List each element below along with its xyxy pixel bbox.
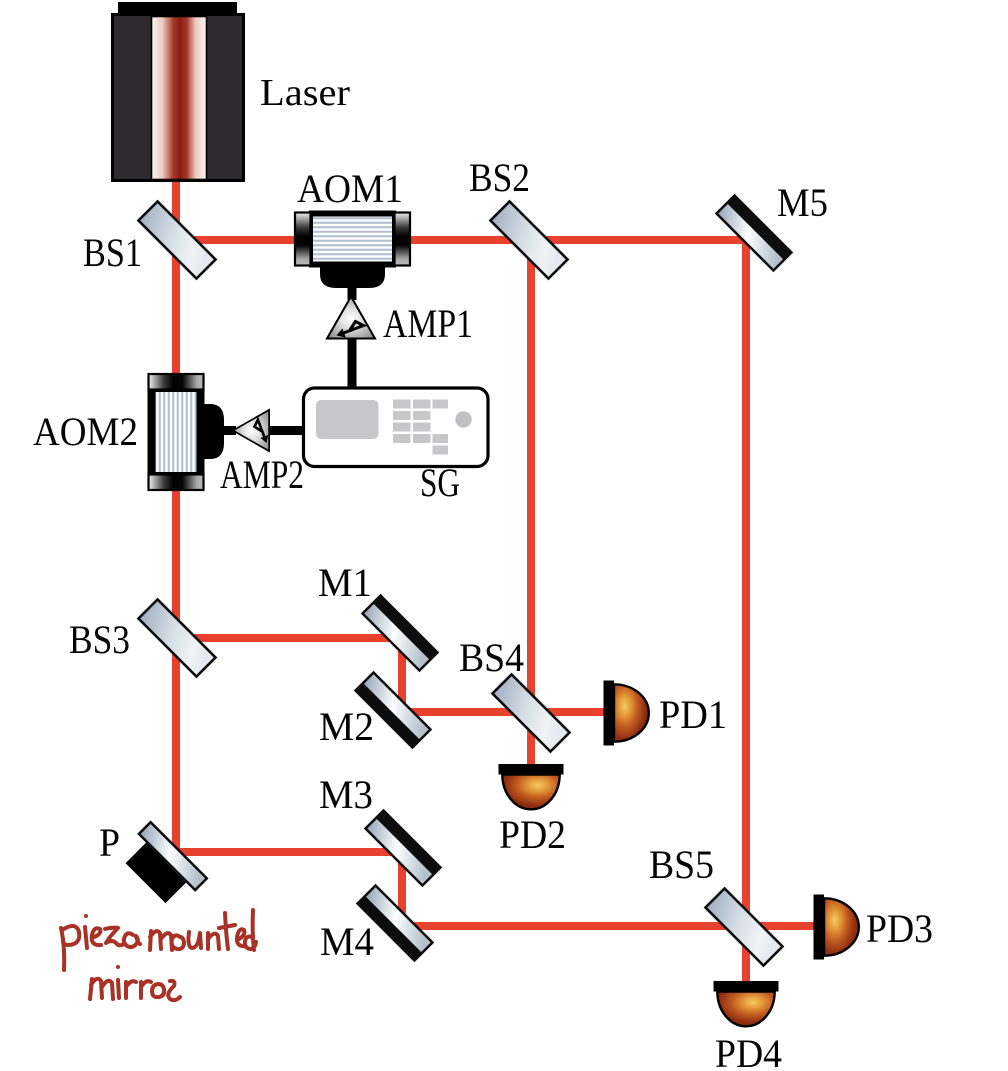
handwritten annotation: piezo mounted mirror bbox=[61, 910, 256, 1000]
svg-text:BS3: BS3 bbox=[69, 617, 130, 662]
beam splitter BS3 bbox=[138, 599, 215, 676]
svg-text:PD2: PD2 bbox=[499, 812, 566, 857]
signal generator SG bbox=[304, 388, 489, 467]
AOM2 bbox=[148, 374, 225, 490]
mirror M1 bbox=[361, 594, 439, 672]
svg-text:BS2: BS2 bbox=[469, 155, 530, 200]
wire: horizontal beam P to M3 bbox=[176, 848, 406, 856]
svg-text:AMP2: AMP2 bbox=[220, 452, 304, 497]
wire: vertical beam M5 down to BS5 bbox=[742, 240, 750, 931]
wire: horizontal beam M4 through BS5 to PD3 bbox=[402, 922, 815, 930]
svg-text:BS4: BS4 bbox=[459, 635, 524, 680]
svg-text:SG: SG bbox=[420, 460, 460, 505]
wire: main vertical beam from Laser through BS1, AOM2, BS3 to P bbox=[172, 100, 180, 856]
mirror M3 bbox=[364, 809, 442, 887]
cable: AMP1 to SG bbox=[348, 336, 357, 390]
beam splitter BS1 bbox=[138, 201, 215, 278]
AOM1 bbox=[295, 211, 410, 289]
mirror M5 bbox=[715, 194, 793, 272]
beam splitter BS2 bbox=[490, 201, 567, 278]
svg-text:M4: M4 bbox=[320, 919, 374, 964]
svg-text:PD3: PD3 bbox=[866, 906, 933, 951]
op-amp AMP2 bbox=[233, 410, 269, 451]
laser bbox=[113, 2, 244, 181]
svg-text:AOM2: AOM2 bbox=[33, 409, 138, 454]
svg-text:M2: M2 bbox=[319, 704, 374, 749]
wire: vertical beam BS5 down to PD4 bbox=[742, 927, 750, 983]
wire: vertical beam M3 to M4 bbox=[398, 852, 406, 928]
beam splitter BS4 bbox=[492, 674, 569, 751]
cable: AMP2 to SG bbox=[266, 426, 306, 435]
photodetector PD1 bbox=[604, 681, 649, 746]
beam splitter BS5 bbox=[705, 888, 782, 965]
wire: horizontal beam BS3 to M1 bbox=[176, 634, 406, 642]
op-amp AMP1 bbox=[327, 297, 375, 339]
photodetector PD3 bbox=[814, 895, 859, 960]
piezo mirror P bbox=[117, 820, 209, 912]
svg-text:P: P bbox=[99, 820, 120, 865]
svg-text:AOM1: AOM1 bbox=[297, 166, 403, 211]
svg-text:PD4: PD4 bbox=[715, 1031, 782, 1071]
wire: top horizontal beam BS1 to AOM1 to BS2 to M5 bbox=[172, 236, 751, 244]
wire: vertical beam BS2 down to BS4 bbox=[527, 240, 535, 718]
mirror M4 bbox=[356, 884, 434, 962]
cable: AOM1 to AMP1 bbox=[348, 282, 357, 300]
photodetector PD2 bbox=[499, 764, 564, 809]
photodetector PD4 bbox=[714, 981, 779, 1026]
svg-text:AMP1: AMP1 bbox=[383, 301, 473, 346]
svg-text:PD1: PD1 bbox=[659, 692, 727, 737]
svg-text:BS5: BS5 bbox=[649, 842, 714, 887]
svg-text:Laser: Laser bbox=[260, 72, 350, 114]
wire: horizontal beam M2 through BS4 to PD1 bbox=[402, 708, 605, 716]
svg-text:M3: M3 bbox=[319, 772, 373, 817]
svg-text:M1: M1 bbox=[318, 560, 372, 605]
wire: vertical beam M1 to M2 bbox=[398, 638, 406, 714]
svg-text:BS1: BS1 bbox=[83, 230, 142, 275]
cable: AOM2 to AMP2 bbox=[220, 426, 236, 435]
wire: vertical beam BS4 down to PD2 bbox=[527, 712, 535, 766]
svg-text:M5: M5 bbox=[777, 180, 828, 225]
mirror M2 bbox=[354, 671, 432, 749]
